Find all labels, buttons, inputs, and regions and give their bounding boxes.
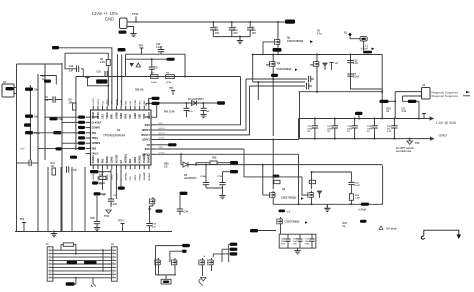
svg-text:TP2: TP2 — [20, 219, 25, 221]
svg-text:4.7uH: 4.7uH — [361, 48, 368, 51]
svg-text:0.1uF: 0.1uF — [111, 204, 118, 206]
svg-text:16V: 16V — [215, 32, 220, 35]
svg-text:TP4: TP4 — [169, 87, 174, 90]
svg-text:CSD17308Q3: CSD17308Q3 — [287, 39, 304, 43]
svg-text:4.7u: 4.7u — [317, 32, 322, 35]
svg-text:0.1u: 0.1u — [402, 111, 407, 113]
svg-text:Q1: Q1 — [287, 36, 291, 40]
svg-text:HDRV1: HDRV1 — [159, 128, 167, 130]
svg-text:GND2: GND2 — [135, 174, 137, 180]
svg-text:2.2R: 2.2R — [100, 62, 105, 64]
svg-text:3: 3 — [49, 256, 50, 258]
svg-text:1uF: 1uF — [152, 226, 157, 228]
svg-text:SW1: SW1 — [126, 113, 128, 119]
svg-text:VSHARE: VSHARE — [143, 171, 146, 180]
svg-text:FB2: FB2 — [92, 147, 97, 150]
svg-text:2: 2 — [49, 252, 50, 254]
svg-text:see table note: see table note — [396, 150, 412, 153]
svg-text:GSNS: GSNS — [112, 156, 114, 163]
svg-text:REFIN: REFIN — [107, 156, 109, 163]
svg-text:1.0u: 1.0u — [353, 62, 358, 65]
svg-text:CSD17308Q3: CSD17308Q3 — [277, 68, 293, 71]
svg-text:C24: C24 — [184, 211, 189, 214]
svg-text:TRK1: TRK1 — [92, 137, 99, 140]
svg-text:TP11: TP11 — [104, 216, 110, 218]
svg-text:GND: GND — [105, 17, 114, 22]
svg-text:ENPH: ENPH — [92, 116, 99, 119]
svg-text:0.1uF: 0.1uF — [156, 46, 163, 49]
svg-text:AGND: AGND — [115, 112, 118, 119]
svg-text:FB1: FB1 — [92, 132, 97, 135]
svg-text:2: 2 — [113, 252, 114, 254]
svg-text:1: 1 — [49, 249, 50, 251]
svg-text:BOOT1: BOOT1 — [159, 133, 167, 135]
svg-text:16V: 16V — [281, 243, 285, 245]
svg-text:16V: 16V — [293, 243, 297, 245]
svg-text:REFIN: REFIN — [107, 174, 109, 181]
svg-text:COMP1: COMP1 — [92, 127, 101, 130]
svg-text:16V: 16V — [252, 32, 257, 35]
svg-text:ISHARE: ISHARE — [148, 172, 151, 180]
svg-text:3: 3 — [113, 256, 114, 258]
svg-text:VDD: VDD — [140, 100, 142, 105]
svg-text:C2R: C2R — [90, 218, 95, 220]
svg-text:C11: C11 — [402, 109, 407, 111]
svg-text:DIFFO: DIFFO — [98, 98, 100, 104]
svg-text:ADRSEL: ADRSEL — [125, 153, 128, 163]
svg-text:LDRV2: LDRV2 — [142, 153, 150, 156]
svg-text:16V: 16V — [233, 32, 238, 35]
svg-text:VREG: VREG — [107, 112, 109, 119]
svg-text:ADRSEL: ADRSEL — [125, 171, 128, 180]
svg-text:1.5V @ 30A: 1.5V @ 30A — [436, 121, 457, 125]
svg-text:GND: GND — [439, 134, 448, 138]
svg-text:TP13: TP13 — [118, 221, 124, 223]
svg-text:GND2: GND2 — [135, 156, 137, 163]
svg-text:VDD: VDD — [140, 114, 142, 119]
svg-text:PGND2: PGND2 — [140, 173, 142, 181]
svg-text:CS2: CS2 — [130, 114, 132, 119]
svg-text:1uF: 1uF — [206, 111, 211, 113]
svg-text:LDRV1: LDRV1 — [159, 138, 166, 140]
svg-text:2.2uF: 2.2uF — [353, 76, 360, 79]
svg-text:For OPT resistor: For OPT resistor — [396, 147, 414, 150]
svg-text:5: 5 — [49, 262, 50, 264]
svg-text:C15A: C15A — [200, 175, 206, 178]
svg-text:8: 8 — [113, 273, 114, 275]
svg-text:TP9: TP9 — [415, 142, 420, 145]
svg-text:10.0k: 10.0k — [151, 82, 157, 84]
svg-text:CSD17308Q3: CSD17308Q3 — [285, 221, 301, 224]
svg-text:R16: R16 — [212, 157, 217, 160]
svg-text:6: 6 — [113, 266, 114, 268]
svg-text:PGND1: PGND1 — [93, 155, 95, 164]
svg-text:U1: U1 — [117, 128, 121, 132]
svg-text:CS1: CS1 — [102, 114, 104, 119]
svg-text:2.2uF: 2.2uF — [354, 185, 360, 187]
svg-text:CLKOUT: CLKOUT — [92, 121, 102, 124]
svg-text:R40 10.0k: R40 10.0k — [164, 111, 175, 114]
svg-text:7: 7 — [49, 269, 50, 271]
svg-text:UVLO: UVLO — [92, 153, 99, 156]
svg-text:7: 7 — [113, 269, 114, 271]
svg-text:HDRV1: HDRV1 — [142, 129, 151, 132]
svg-text:1: 1 — [113, 249, 114, 251]
svg-text:PR1: PR1 — [59, 119, 64, 121]
svg-text:C18: C18 — [97, 72, 102, 74]
svg-text:Magnetic Suppress: Magnetic Suppress — [432, 94, 459, 98]
svg-text:9: 9 — [49, 276, 50, 278]
svg-text:R39 10k: R39 10k — [135, 90, 144, 92]
svg-text:6: 6 — [49, 266, 50, 268]
svg-text:R18: R18 — [387, 109, 392, 111]
svg-text:GND: GND — [98, 158, 100, 163]
svg-text:5V limit: 5V limit — [387, 227, 397, 231]
svg-text:CSD17308Q3: CSD17308Q3 — [281, 197, 297, 200]
svg-text:PH1: PH1 — [102, 158, 104, 163]
svg-text:CLKIO: CLKIO — [93, 98, 95, 105]
svg-text:SW2: SW2 — [145, 148, 151, 151]
svg-text:FB: FB — [147, 144, 150, 147]
svg-text:COMP2: COMP2 — [92, 142, 101, 145]
svg-text:16V: 16V — [305, 243, 309, 245]
svg-text:BOOT1: BOOT1 — [142, 134, 151, 137]
svg-text:PH2: PH2 — [130, 158, 132, 163]
svg-text:0.47uH: 0.47uH — [359, 209, 367, 212]
svg-text:5: 5 — [113, 262, 114, 264]
svg-text:D1 mbr0530T1: D1 mbr0530T1 — [188, 99, 204, 101]
svg-text:LDRV2: LDRV2 — [159, 152, 166, 154]
svg-text:GSNS: GSNS — [112, 174, 114, 180]
svg-text:BP5: BP5 — [112, 114, 114, 119]
svg-text:ILIM2: ILIM2 — [135, 112, 137, 119]
svg-text:C15B: C15B — [217, 176, 223, 178]
svg-text:BP5: BP5 — [145, 116, 150, 119]
svg-text:1.0R: 1.0R — [355, 198, 360, 200]
svg-text:PGND1: PGND1 — [93, 173, 95, 181]
svg-text:SW1: SW1 — [145, 124, 151, 127]
svg-text:LDRV1: LDRV1 — [142, 139, 150, 142]
svg-text:6.3V: 6.3V — [387, 131, 392, 133]
svg-text:mbr0530T1: mbr0530T1 — [184, 177, 197, 180]
svg-text:4.7u: 4.7u — [189, 110, 194, 113]
svg-text:ILIM2: ILIM2 — [135, 99, 137, 105]
svg-text:1uF: 1uF — [69, 71, 74, 73]
svg-text:9: 9 — [113, 276, 114, 278]
svg-text:1.05k: 1.05k — [34, 133, 40, 135]
svg-text:C10: C10 — [69, 66, 74, 68]
svg-text:ILIM1: ILIM1 — [121, 112, 123, 119]
svg-text:TPS40140RHH: TPS40140RHH — [103, 134, 126, 138]
svg-text:12Vin +/- 10%: 12Vin +/- 10% — [92, 11, 119, 16]
svg-text:TP15: TP15 — [132, 12, 139, 16]
svg-text:8: 8 — [49, 273, 50, 275]
svg-text:PGOOD: PGOOD — [116, 154, 118, 163]
svg-text:TP3: TP3 — [139, 45, 144, 48]
svg-text:97.6k: 97.6k — [166, 82, 172, 84]
